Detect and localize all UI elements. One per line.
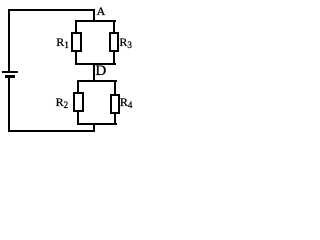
wire stub R4 bottom to bus	[114, 113, 116, 124]
resistor R2 label	[56, 96, 69, 110]
node A label	[97, 5, 106, 17]
wire left upper (battery top lead)	[8, 9, 10, 72]
resistor R3	[109, 32, 119, 52]
battery E negative plate	[5, 75, 15, 78]
wire stub bus to R2 top	[77, 81, 79, 93]
wire bottom bus of R2 parallel R4	[77, 123, 117, 125]
wire drop from top wire to node A bus	[93, 10, 95, 21]
wire left lower (battery - lead)	[8, 77, 10, 132]
wire drop node D (upper bus to lower bus)	[93, 64, 95, 81]
wire stub R3 bottom to bus	[113, 51, 115, 64]
resistor R2	[73, 92, 84, 112]
resistor R4	[110, 94, 120, 114]
node D label	[95, 64, 106, 79]
resistor R4 label	[120, 96, 133, 110]
battery E positive plate	[2, 71, 18, 73]
resistor R1	[71, 32, 82, 52]
wire bottom return	[8, 130, 95, 132]
resistor R3 label	[119, 36, 132, 50]
wire stub bus to R4 top	[114, 81, 116, 95]
wire top (battery + to node A)	[8, 9, 95, 11]
wire stub bus to R3 top	[113, 21, 115, 33]
wire bottom bus of R1 parallel R3	[75, 63, 116, 65]
wire top bus of R1 parallel R3	[75, 20, 116, 22]
wire riser bus to bottom return	[93, 124, 95, 132]
wire stub R1 bottom to bus	[75, 51, 77, 64]
resistor R1 label	[56, 36, 69, 50]
wire top bus of R2 parallel R4	[77, 80, 117, 82]
wire stub bus to R1 top	[75, 21, 77, 33]
wire stub R2 bottom to bus	[77, 111, 79, 124]
